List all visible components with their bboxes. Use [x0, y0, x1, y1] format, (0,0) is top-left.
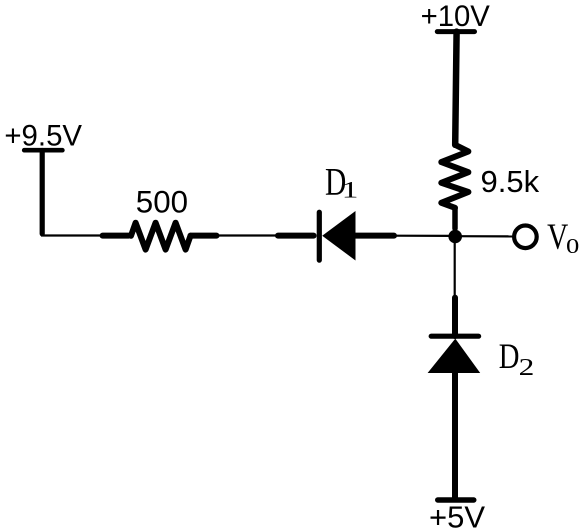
svg-text:D: D — [499, 337, 520, 377]
svg-text:0: 0 — [566, 235, 579, 258]
svg-text:1: 1 — [342, 178, 359, 204]
svg-text:500: 500 — [136, 185, 188, 220]
svg-text:+10V: +10V — [421, 0, 491, 33]
svg-text:+5V: +5V — [429, 499, 485, 532]
svg-text:9.5k: 9.5k — [481, 164, 540, 199]
svg-text:2: 2 — [519, 354, 535, 381]
svg-text:+9.5V: +9.5V — [4, 119, 82, 152]
